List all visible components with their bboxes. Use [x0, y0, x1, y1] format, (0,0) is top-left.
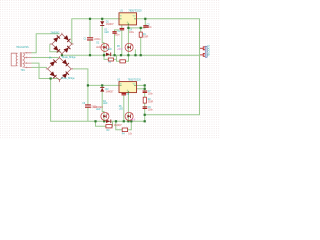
svg-text:100u: 100u — [129, 32, 135, 34]
svg-text:100n: 100n — [148, 109, 154, 111]
svg-text:100n: 100n — [148, 94, 154, 96]
svg-text:100n: 100n — [115, 35, 121, 37]
svg-text:330R: 330R — [148, 101, 154, 103]
svg-text:1A: 1A — [49, 56, 52, 59]
svg-text:LED: LED — [104, 32, 109, 34]
svg-text:LED: LED — [107, 49, 112, 51]
svg-text:LED-RED: LED-RED — [93, 107, 103, 109]
svg-text:Diode_Bridge: Diode_Bridge — [61, 77, 75, 80]
svg-text:TRAN-2P2S: TRAN-2P2S — [16, 46, 29, 49]
svg-text:LED: LED — [103, 103, 108, 105]
svg-text:+88.8: +88.8 — [117, 49, 123, 51]
svg-text:100n: 100n — [147, 27, 153, 29]
svg-text:LED-RED: LED-RED — [96, 47, 106, 49]
svg-text:7805/TO220: 7805/TO220 — [128, 9, 142, 12]
svg-text:1N4007: 1N4007 — [106, 91, 115, 93]
svg-text:1N4007: 1N4007 — [114, 125, 123, 127]
svg-text:7905/TO220: 7905/TO220 — [128, 79, 142, 82]
svg-text:LED: LED — [119, 108, 124, 110]
svg-text:VO: VO — [133, 84, 136, 86]
svg-text:TBLOCK-I2: TBLOCK-I2 — [209, 44, 211, 57]
svg-text:VO: VO — [133, 15, 136, 17]
svg-text:2200u: 2200u — [94, 39, 101, 41]
svg-text:LED: LED — [96, 109, 101, 111]
svg-text:TR1: TR1 — [21, 70, 26, 72]
svg-text:330R: 330R — [143, 36, 149, 38]
svg-text:1N4007: 1N4007 — [106, 24, 115, 26]
svg-text:Diode_Bridge: Diode_Bridge — [62, 56, 76, 59]
svg-text:2W005G: 2W005G — [51, 33, 60, 35]
svg-text:+8.8: +8.8 — [131, 119, 136, 121]
